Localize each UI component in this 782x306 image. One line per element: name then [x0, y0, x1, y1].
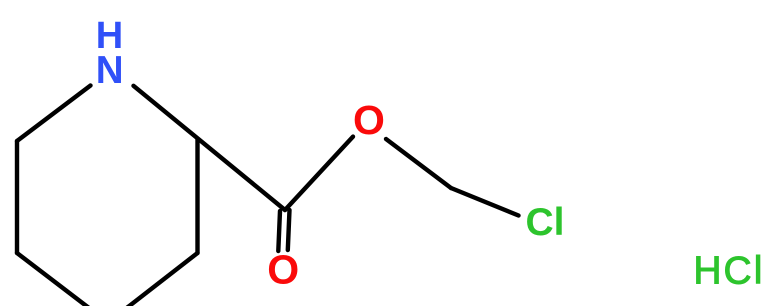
wire: bond C6-C5 vertical	[15, 141, 19, 253]
wire: bond O-CH2	[386, 139, 451, 188]
wire: bond C'-O ester	[285, 137, 353, 210]
svg-text:N: N	[96, 49, 124, 92]
wire: C=O double bond right line	[288, 210, 290, 250]
wire: C=O double bond left line	[278, 211, 280, 251]
wire: bond N-C6	[17, 86, 91, 142]
svg-text:O: O	[267, 247, 299, 293]
wire: bond C5-C4 (clipped at bottom)	[17, 253, 108, 306]
wire: bond CH2-Cl	[451, 188, 519, 216]
wire: bond N-C2 and C2-C' (collinear)	[134, 86, 286, 210]
wire: bond C2-C3 vertical	[195, 139, 199, 253]
wire: bond C3-C4 (clipped at bottom)	[108, 253, 198, 306]
svg-text:HCl: HCl	[693, 249, 764, 292]
svg-text:O: O	[353, 97, 385, 143]
svg-text:Cl: Cl	[526, 201, 565, 244]
